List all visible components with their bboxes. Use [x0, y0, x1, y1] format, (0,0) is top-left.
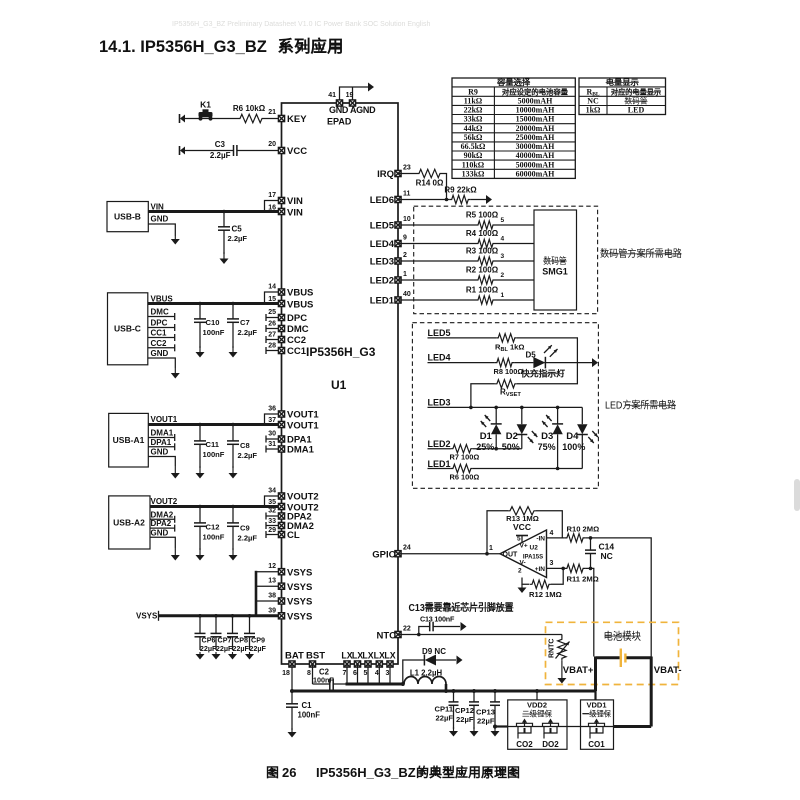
LED D3 75%: [557, 407, 559, 424]
stub DPA2: [150, 527, 175, 529]
svg-text:GND: GND: [151, 215, 169, 224]
svg-text:R12 1MΩ: R12 1MΩ: [529, 590, 562, 599]
ground C7: [232, 346, 234, 353]
svg-text:100nF: 100nF: [203, 533, 225, 542]
svg-text:的典型应用原理图: 的典型应用原理图: [416, 765, 520, 780]
svg-text:VIN: VIN: [287, 196, 303, 207]
wire LX bus thick: [346, 683, 405, 686]
svg-text:EPAD: EPAD: [327, 117, 352, 127]
wire LED6 to R9: [398, 199, 450, 201]
node VBUS-C7 junction: [231, 302, 235, 306]
capacitor C13 100nF: [429, 622, 431, 632]
pin 34 VOUT2: [278, 493, 284, 499]
LED D1 25%: [495, 407, 497, 424]
wire R2 to SMG1 pin 2: [495, 279, 534, 281]
svg-text:R2 100Ω: R2 100Ω: [466, 266, 499, 275]
resistor R6 10kΩ (key): [238, 114, 264, 122]
svg-text:C10: C10: [206, 318, 220, 327]
svg-text:2: 2: [501, 272, 505, 279]
svg-text:DMA1: DMA1: [151, 429, 174, 438]
svg-text:C11: C11: [206, 440, 220, 449]
ground C10: [199, 346, 201, 353]
svg-text:3: 3: [550, 560, 554, 567]
pin 19 AGND: [349, 100, 355, 106]
svg-text:DPC: DPC: [287, 313, 307, 324]
stub CC1: [148, 337, 175, 339]
svg-text:2.2µF: 2.2µF: [238, 534, 258, 543]
svg-text:4: 4: [501, 236, 505, 243]
svg-text:22µF: 22µF: [216, 644, 233, 653]
svg-text:BAT: BAT: [285, 651, 304, 662]
wire C13 branch: [419, 627, 430, 635]
svg-text:对应设定的电池容量: 对应设定的电池容量: [502, 86, 568, 96]
svg-text:USB-C: USB-C: [114, 324, 141, 334]
node LED3 D columns junctions: [494, 406, 559, 410]
svg-text:LED2: LED2: [428, 439, 451, 449]
wire LX pins down to bus: [346, 664, 348, 684]
svg-text:133kΩ: 133kΩ: [462, 169, 485, 178]
svg-text:22µF: 22µF: [232, 644, 249, 653]
ground USB-C: [174, 368, 176, 374]
resistor R2 100Ω: [476, 276, 495, 284]
ground CP6: [199, 652, 201, 655]
svg-text:2: 2: [403, 252, 407, 259]
svg-text:18: 18: [282, 670, 290, 677]
svg-text:LX: LX: [384, 651, 395, 661]
svg-text:1kΩ: 1kΩ: [586, 106, 601, 115]
wire R10 to VBAT- sense: [585, 538, 651, 657]
capacitor C8 2.2µF: [232, 425, 234, 442]
svg-text:CP12: CP12: [455, 706, 474, 715]
svg-text:100nF: 100nF: [203, 450, 225, 459]
wire R5 to SMG1 pin 5: [495, 224, 534, 226]
pin 33 DMA2 stub: [266, 525, 282, 527]
push button K1: [199, 110, 212, 120]
wire CP13 to protection FETs: [495, 725, 508, 727]
svg-text:2.2µF: 2.2µF: [238, 328, 258, 337]
dashed box digital tube circuit: [414, 206, 598, 314]
node D9-LX junction: [401, 682, 405, 686]
svg-text:IP5356H_G3_BZ Preliminary Da: IP5356H_G3_BZ Preliminary Datasheet V1.0…: [172, 21, 430, 28]
svg-text:VSYS: VSYS: [287, 582, 312, 593]
node D1 LED2 junction: [494, 447, 498, 451]
svg-text:36: 36: [268, 406, 276, 413]
wire VCC left: [181, 150, 234, 152]
wire VSYS vertical bus: [255, 571, 258, 616]
pin 12 VSYS: [278, 569, 284, 575]
svg-text:CC1: CC1: [151, 329, 168, 338]
svg-text:VSYS: VSYS: [136, 612, 158, 621]
wire R4 to SMG1 pin 4: [495, 243, 534, 245]
svg-text:NC: NC: [601, 551, 613, 561]
svg-text:21: 21: [268, 109, 276, 116]
svg-text:LED3: LED3: [428, 397, 451, 407]
wire -IN pin 4: [547, 537, 565, 539]
svg-text:C8: C8: [240, 441, 250, 450]
wire VOUT1 thick: [148, 423, 281, 426]
capacitor C1 100nF: [291, 691, 293, 704]
svg-text:2: 2: [518, 568, 522, 575]
pin 31 DMA1 stub: [266, 448, 282, 450]
svg-text:4: 4: [550, 530, 554, 537]
svg-text:GND: GND: [151, 448, 169, 457]
svg-text:DMA2: DMA2: [151, 510, 174, 519]
svg-text:R14 0Ω: R14 0Ω: [416, 179, 444, 188]
capacitor CP12 22µF: [473, 691, 475, 702]
svg-text:LED2: LED2: [370, 276, 394, 287]
svg-text:D4: D4: [566, 431, 579, 442]
svg-text:3: 3: [386, 670, 390, 677]
node VBUS-C10 junction: [198, 302, 202, 306]
wire C3 to VCC pin: [237, 150, 282, 152]
battery cell BT1: [596, 656, 620, 659]
pin 39 VSYS: [278, 613, 284, 619]
svg-text:3: 3: [501, 253, 505, 260]
wire C2 to LX bus: [333, 683, 345, 685]
svg-text:28: 28: [268, 343, 276, 350]
wire L1 to VBAT+ rail: [445, 684, 448, 691]
wire R14 to LED6 node: [442, 174, 447, 200]
pin 35 VOUT2: [278, 503, 284, 509]
svg-text:D3: D3: [541, 431, 553, 442]
transistor CO1: [589, 723, 605, 726]
pin 13 VSYS: [278, 583, 284, 589]
node VSYS capacitor junctions: [198, 614, 251, 618]
svg-text:5: 5: [517, 536, 521, 543]
svg-text:90kΩ: 90kΩ: [464, 151, 483, 160]
ground C11: [199, 466, 201, 474]
wire USB-C GND: [148, 358, 176, 368]
wire R1 to SMG1 pin 1: [495, 299, 534, 301]
ground CP9: [249, 652, 251, 655]
wire RBL to RVSET (right drop): [517, 338, 578, 384]
wire LED5 to RBL: [428, 337, 497, 339]
svg-text:5: 5: [364, 670, 368, 677]
capacitor C10 100nF: [199, 304, 201, 320]
svg-text:34: 34: [268, 488, 276, 495]
resistor R9 22kΩ: [450, 195, 471, 203]
wire GPIO to op-amp output: [398, 553, 500, 555]
svg-text:SMG1: SMG1: [542, 267, 568, 277]
svg-text:31: 31: [268, 441, 276, 448]
wire LED1 to R6: [428, 468, 451, 470]
svg-text:R10 2MΩ: R10 2MΩ: [567, 525, 600, 534]
svg-text:C13 100nF: C13 100nF: [420, 614, 455, 623]
svg-text:15: 15: [268, 296, 276, 303]
svg-text:USB-A1: USB-A1: [113, 435, 145, 445]
svg-text:IPA15S: IPA15S: [523, 555, 543, 561]
ground C9: [232, 548, 234, 556]
svg-text:VCC: VCC: [513, 522, 531, 532]
node L1 rail junction: [444, 689, 448, 693]
ground C5: [223, 252, 225, 259]
svg-text:RNTC: RNTC: [549, 639, 556, 658]
capacitor C12 100nF: [199, 507, 201, 524]
ground CP13: [494, 727, 496, 732]
svg-text:CL: CL: [287, 530, 300, 541]
svg-text:14.1. IP5356H_G3_BZ: 14.1. IP5356H_G3_BZ: [99, 38, 267, 56]
ground op-amp pin2: [521, 584, 523, 588]
svg-text:9: 9: [403, 235, 407, 242]
pin 36 VOUT1: [278, 411, 284, 417]
svg-text:GPIO: GPIO: [372, 550, 396, 561]
node VDD2 rail junction: [535, 689, 539, 693]
svg-text:R13 1MΩ: R13 1MΩ: [506, 514, 539, 523]
svg-text:R4 100Ω: R4 100Ω: [466, 229, 499, 238]
wire BST down: [312, 664, 314, 684]
node BAT rail junction: [290, 689, 294, 693]
svg-text:D2: D2: [506, 431, 518, 442]
svg-text:44kΩ: 44kΩ: [464, 124, 483, 133]
wire R11 to VBAT+ sense: [585, 568, 594, 656]
svg-text:32: 32: [268, 508, 276, 515]
svg-text:DMA1: DMA1: [287, 445, 315, 456]
node VOUT2-C9 junction: [231, 505, 235, 509]
svg-text:40000mAH: 40000mAH: [516, 151, 555, 160]
wire feedback loop left: [487, 511, 508, 554]
svg-text:NC: NC: [587, 97, 599, 106]
svg-text:IRQ: IRQ: [377, 169, 394, 180]
svg-text:LED3: LED3: [370, 257, 394, 268]
svg-text:+IN: +IN: [535, 566, 546, 573]
svg-text:22: 22: [403, 626, 411, 633]
svg-text:LED1: LED1: [428, 459, 451, 469]
wire LED1 to R1: [398, 299, 476, 301]
transistor CO2: [517, 723, 533, 726]
svg-text:26: 26: [282, 765, 296, 780]
svg-text:R1 100Ω: R1 100Ω: [466, 286, 499, 295]
CJK text stroke overlay: [425, 83, 682, 714]
wire VSYS thick: [159, 614, 282, 617]
svg-text:27: 27: [268, 332, 276, 339]
wire LED2 to R7: [428, 448, 451, 450]
svg-text:41: 41: [328, 92, 336, 99]
resistor R12 1MΩ: [530, 580, 551, 588]
svg-text:100nF: 100nF: [313, 676, 334, 685]
svg-text:24: 24: [403, 545, 411, 552]
svg-text:VOUT2: VOUT2: [151, 497, 178, 506]
wire R3 to SMG1 pin 3: [495, 260, 534, 262]
transistor DO2: [543, 723, 559, 726]
node CP13 protection junction: [493, 725, 497, 729]
svg-text:RBL 1kΩ: RBL 1kΩ: [495, 343, 524, 353]
svg-text:22µF: 22µF: [477, 717, 495, 726]
wire RVSET to LED3 (left drop): [471, 384, 495, 408]
svg-text:16: 16: [268, 205, 276, 212]
wire VOUT2 pin34 branch: [265, 496, 282, 507]
svg-text:LED6: LED6: [370, 195, 394, 206]
svg-text:75%: 75%: [538, 442, 556, 452]
page edge artifact: [794, 479, 800, 511]
ground CP12: [473, 727, 475, 732]
svg-text:DMC: DMC: [287, 324, 309, 335]
wire NTC to RNTC: [398, 634, 562, 636]
table capacity selection 容量选择: [452, 77, 575, 178]
svg-text:5000mAH: 5000mAH: [518, 97, 553, 106]
svg-text:-IN: -IN: [536, 535, 545, 542]
svg-text:C1: C1: [302, 701, 313, 710]
svg-text:VCC: VCC: [287, 146, 307, 157]
svg-text:VSYS: VSYS: [287, 612, 312, 623]
svg-text:R6 100Ω: R6 100Ω: [450, 473, 480, 482]
wire KEY line: [181, 118, 238, 120]
pin 20 VCC: [278, 147, 284, 153]
resistor R3 100Ω: [476, 257, 495, 265]
node CP12 rail junction: [472, 689, 476, 693]
stub CC2: [148, 347, 175, 349]
svg-text:33: 33: [268, 518, 276, 525]
stub DMC: [148, 316, 175, 318]
svg-text:D5: D5: [526, 351, 537, 360]
svg-text:100nF: 100nF: [298, 711, 321, 720]
wire BST to C2: [313, 683, 330, 685]
svg-text:25: 25: [268, 309, 276, 316]
svg-text:2.2µF: 2.2µF: [228, 234, 248, 243]
node VOUT1-C8 junction: [231, 423, 235, 427]
ground D9 (arrow): [457, 656, 463, 665]
svg-text:USB-B: USB-B: [114, 212, 141, 222]
svg-text:LX: LX: [362, 651, 373, 661]
wire IRQ to R14: [398, 173, 417, 175]
svg-text:DMC: DMC: [151, 308, 169, 317]
svg-text:50%: 50%: [502, 442, 520, 452]
node CP13 rail junction: [493, 689, 497, 693]
wire LED2 to R2: [398, 279, 476, 281]
resistor R7 100Ω: [451, 445, 473, 453]
LED D2 50%: [521, 407, 523, 424]
wire VIN pin17 branch: [265, 201, 282, 212]
svg-text:OUT: OUT: [503, 552, 519, 559]
node LED6-R14 junction: [445, 198, 449, 202]
svg-text:系列应用: 系列应用: [278, 36, 344, 56]
svg-text:VBUS: VBUS: [287, 300, 313, 311]
svg-text:26: 26: [268, 321, 276, 328]
svg-text:DO2: DO2: [542, 740, 559, 749]
svg-text:4: 4: [375, 670, 379, 677]
svg-text:30: 30: [268, 431, 276, 438]
wire LED3 row: [428, 406, 583, 408]
capacitor C3 2.2µF: [233, 145, 235, 156]
digital tube SMG1: [534, 210, 577, 310]
svg-text:BST: BST: [306, 651, 325, 662]
svg-text:对应的电量显示: 对应的电量显示: [611, 86, 661, 96]
svg-text:25%: 25%: [476, 442, 494, 452]
terminal VSYS: [158, 611, 160, 621]
wire R9 to ground arrow: [470, 199, 486, 201]
wire +IN pin 3: [547, 567, 565, 569]
terminal KEY input: [179, 114, 181, 123]
pin 14 VBUS: [278, 289, 284, 295]
wire LED4 to R4: [398, 243, 476, 245]
svg-text:100%: 100%: [562, 442, 585, 452]
svg-text:10000mAH: 10000mAH: [516, 106, 555, 115]
connector USB-A1: [109, 413, 149, 467]
svg-text:VSYS: VSYS: [287, 597, 312, 608]
svg-text:37: 37: [268, 417, 276, 424]
svg-text:11: 11: [403, 191, 411, 198]
svg-text:7: 7: [343, 670, 347, 677]
wire VBAT- vertical thick: [650, 657, 653, 727]
svg-text:LED5: LED5: [428, 328, 451, 338]
wire LED4 to R8: [428, 362, 495, 364]
wire VSYS pin13 stub: [256, 585, 282, 587]
svg-text:D1: D1: [480, 431, 493, 442]
wire VOUT1 pin36 branch: [265, 414, 282, 425]
ground R9 (arrow): [486, 195, 492, 204]
resistor R4 100Ω: [476, 239, 495, 247]
wire VDD2 supply from rail: [536, 691, 538, 700]
svg-text:USB-A2: USB-A2: [113, 517, 145, 527]
svg-text:U2: U2: [530, 545, 539, 552]
svg-text:LED: LED: [628, 106, 645, 115]
svg-text:VOUT2: VOUT2: [287, 492, 319, 503]
svg-text:V+: V+: [520, 543, 528, 550]
svg-text:14: 14: [268, 284, 276, 291]
svg-text:19: 19: [346, 92, 354, 99]
stub DMA1: [148, 437, 174, 439]
node GPIO feedback junction: [485, 552, 489, 556]
svg-text:LED4: LED4: [428, 353, 451, 363]
wire LED5 to R5: [398, 224, 476, 226]
svg-text:R8 100Ω: R8 100Ω: [494, 367, 524, 376]
wire USB-B GND: [148, 224, 175, 236]
ground RNTC: [561, 660, 563, 678]
svg-text:D9 NC: D9 NC: [422, 647, 446, 656]
dashed box LED circuit: [412, 323, 598, 489]
svg-text:5: 5: [501, 217, 505, 224]
svg-text:L1 2.2µH: L1 2.2µH: [410, 669, 443, 678]
node R12 +IN junction: [561, 567, 565, 571]
node C14 top junction: [589, 536, 593, 540]
svg-text:22µF: 22µF: [436, 714, 454, 723]
svg-text:30000mAH: 30000mAH: [516, 142, 555, 151]
protection box VDD2 二级锂保: [508, 700, 567, 749]
ground CP7: [215, 652, 217, 655]
svg-text:DPA1: DPA1: [151, 438, 172, 447]
svg-text:1: 1: [501, 292, 505, 299]
capacitor CP6 22µF: [199, 616, 201, 634]
wire VOUT2 thick: [150, 505, 282, 508]
capacitor CP13 22µF: [494, 691, 496, 702]
svg-text:29: 29: [268, 527, 276, 534]
svg-text:LX: LX: [374, 651, 385, 661]
svg-text:22µF: 22µF: [249, 644, 266, 653]
stub DPA1: [148, 446, 174, 448]
svg-text:25000mAH: 25000mAH: [516, 133, 555, 142]
svg-text:数码管: 数码管: [543, 255, 567, 266]
svg-text:CP11: CP11: [435, 705, 454, 714]
svg-text:V-: V-: [520, 560, 526, 567]
pin 21 KEY: [278, 115, 284, 121]
ground USB-A2: [174, 548, 176, 556]
capacitor CP9 22µF: [249, 616, 251, 634]
svg-text:KEY: KEY: [287, 114, 307, 125]
svg-text:23: 23: [403, 165, 411, 172]
svg-text:VDD2: VDD2: [527, 701, 547, 710]
svg-text:GND: GND: [151, 349, 169, 358]
wire VSYS pin12 stub: [256, 571, 282, 573]
svg-text:11kΩ: 11kΩ: [464, 97, 483, 106]
capacitor C11 100nF: [199, 425, 201, 442]
svg-text:35: 35: [268, 499, 276, 506]
svg-text:快充指示灯: 快充指示灯: [521, 368, 565, 379]
wire R6 to D3 D4: [473, 468, 582, 470]
wire VBAT- to CO1: [614, 725, 652, 728]
svg-text:VDD1: VDD1: [586, 701, 606, 710]
wire VDD1 supply from rail: [594, 691, 596, 700]
resistor R8 100Ω: [495, 358, 514, 366]
svg-text:8: 8: [307, 670, 311, 677]
